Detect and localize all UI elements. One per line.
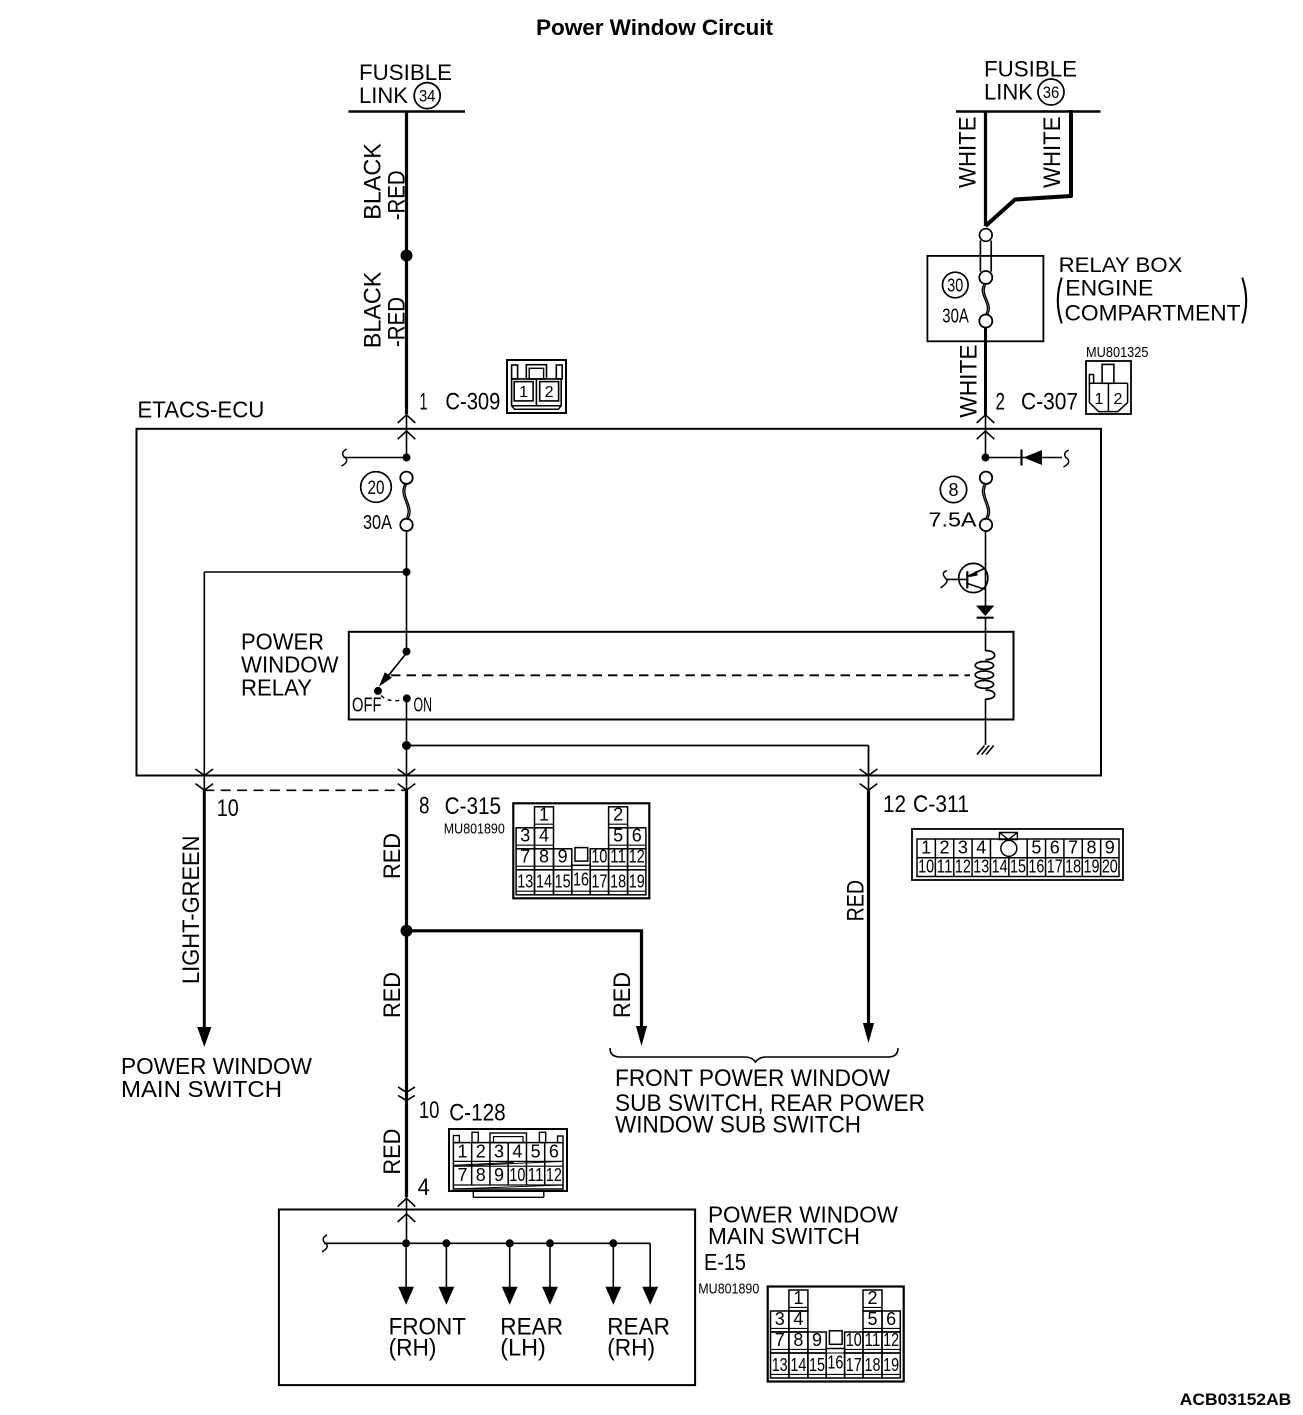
svg-text:2: 2 [613, 805, 623, 825]
svg-text:12: 12 [629, 847, 645, 867]
svg-text:OFF: OFF [352, 695, 382, 717]
svg-text:6: 6 [632, 826, 642, 846]
svg-text:11: 11 [865, 1330, 881, 1350]
svg-text:12: 12 [546, 1165, 562, 1185]
svg-text:COMPARTMENT: COMPARTMENT [1065, 301, 1241, 326]
svg-text:34: 34 [419, 87, 436, 106]
svg-text:C-128: C-128 [449, 1100, 506, 1127]
svg-text:1: 1 [458, 1141, 468, 1161]
svg-text:E-15: E-15 [704, 1249, 746, 1275]
svg-text:18: 18 [1065, 856, 1081, 876]
svg-text:10: 10 [918, 856, 934, 876]
svg-text:12: 12 [883, 1330, 899, 1350]
svg-text:30: 30 [947, 275, 963, 295]
svg-text:RED: RED [609, 972, 636, 1018]
svg-text:5: 5 [867, 1309, 877, 1329]
svg-text:20: 20 [1102, 856, 1118, 876]
svg-text:1: 1 [539, 805, 549, 825]
svg-text:11: 11 [610, 847, 626, 867]
svg-text:10: 10 [419, 1097, 440, 1124]
svg-text:10: 10 [217, 795, 239, 822]
svg-text:-RED: -RED [384, 297, 411, 347]
svg-text:2: 2 [867, 1288, 877, 1308]
svg-text:9: 9 [812, 1330, 822, 1350]
svg-text:LIGHT-GREEN: LIGHT-GREEN [178, 836, 205, 985]
svg-text:9: 9 [494, 1165, 504, 1185]
svg-text:11: 11 [937, 856, 953, 876]
svg-text:18: 18 [865, 1355, 881, 1375]
svg-text:5: 5 [1031, 837, 1041, 857]
svg-text:C-309: C-309 [445, 389, 500, 416]
svg-text:-RED: -RED [384, 170, 411, 220]
svg-text:(LH): (LH) [500, 1335, 546, 1362]
svg-text:FUSIBLE: FUSIBLE [984, 56, 1077, 81]
svg-text:4: 4 [512, 1141, 522, 1161]
svg-text:3: 3 [958, 837, 968, 857]
svg-text:10: 10 [509, 1165, 525, 1185]
svg-text:2: 2 [996, 389, 1006, 416]
svg-text:11: 11 [528, 1165, 544, 1185]
svg-text:(RH): (RH) [607, 1335, 655, 1362]
svg-text:2: 2 [1114, 391, 1123, 408]
svg-text:LINK: LINK [359, 83, 408, 108]
svg-text:16: 16 [573, 869, 589, 889]
svg-text:RELAY: RELAY [241, 674, 312, 700]
svg-text:8: 8 [539, 847, 549, 867]
svg-text:Power Window Circuit: Power Window Circuit [536, 15, 773, 40]
svg-text:ENGINE: ENGINE [1065, 276, 1153, 301]
svg-text:14: 14 [992, 856, 1008, 876]
svg-text:9: 9 [1105, 837, 1115, 857]
svg-text:13: 13 [973, 856, 989, 876]
svg-text:7: 7 [775, 1330, 785, 1350]
svg-text:15: 15 [1010, 856, 1026, 876]
svg-text:4: 4 [793, 1309, 803, 1329]
svg-text:MU801890: MU801890 [444, 822, 505, 838]
svg-text:18: 18 [610, 872, 626, 892]
svg-text:WHITE: WHITE [1039, 117, 1066, 189]
svg-text:16: 16 [1028, 856, 1044, 876]
svg-text:10: 10 [591, 847, 607, 867]
svg-text:2: 2 [476, 1141, 486, 1161]
svg-text:MAIN SWITCH: MAIN SWITCH [708, 1223, 860, 1249]
svg-text:6: 6 [1050, 837, 1060, 857]
svg-text:WHITE: WHITE [955, 344, 982, 417]
svg-text:7: 7 [458, 1165, 468, 1185]
svg-text:FUSIBLE: FUSIBLE [359, 60, 452, 85]
svg-text:WINDOW SUB SWITCH: WINDOW SUB SWITCH [615, 1112, 861, 1139]
svg-text:5: 5 [613, 826, 623, 846]
svg-text:BLACK: BLACK [360, 272, 387, 349]
svg-text:1: 1 [519, 384, 528, 401]
svg-text:3: 3 [494, 1141, 504, 1161]
svg-text:12: 12 [883, 791, 906, 818]
svg-text:ETACS-ECU: ETACS-ECU [137, 397, 264, 423]
svg-text:8: 8 [476, 1165, 486, 1185]
svg-text:6: 6 [549, 1141, 559, 1161]
svg-text:1: 1 [1095, 391, 1104, 408]
svg-text:4: 4 [976, 837, 986, 857]
svg-text:RED: RED [842, 880, 869, 921]
svg-text:30A: 30A [942, 305, 969, 328]
svg-text:4: 4 [418, 1174, 430, 1201]
svg-text:WHITE: WHITE [955, 117, 982, 189]
svg-text:2: 2 [545, 384, 554, 401]
svg-text:FRONT POWER WINDOW: FRONT POWER WINDOW [615, 1065, 890, 1092]
svg-text:17: 17 [1047, 856, 1063, 876]
svg-text:15: 15 [555, 872, 571, 892]
svg-text:(RH): (RH) [389, 1335, 437, 1362]
svg-text:MU801325: MU801325 [1086, 345, 1149, 361]
svg-text:5: 5 [531, 1141, 541, 1161]
svg-text:13: 13 [772, 1355, 788, 1375]
svg-text:7.5A: 7.5A [929, 509, 977, 532]
svg-text:7: 7 [1068, 837, 1078, 857]
svg-text:9: 9 [558, 847, 568, 867]
svg-text:17: 17 [591, 872, 607, 892]
svg-text:MAIN SWITCH: MAIN SWITCH [121, 1076, 282, 1102]
svg-text:1: 1 [793, 1288, 803, 1308]
svg-text:14: 14 [790, 1355, 806, 1375]
svg-text:C-311: C-311 [913, 791, 969, 818]
svg-text:19: 19 [883, 1355, 899, 1375]
svg-text:8: 8 [419, 793, 430, 820]
svg-text:RED: RED [379, 833, 406, 879]
svg-text:1: 1 [420, 389, 428, 416]
svg-text:19: 19 [629, 872, 645, 892]
svg-text:13: 13 [517, 872, 533, 892]
svg-text:10: 10 [846, 1330, 862, 1350]
svg-text:4: 4 [539, 826, 549, 846]
svg-text:8: 8 [793, 1330, 803, 1350]
svg-text:30A: 30A [363, 511, 392, 534]
svg-text:RED: RED [379, 972, 406, 1018]
svg-text:RELAY BOX: RELAY BOX [1059, 253, 1183, 277]
svg-text:C-315: C-315 [445, 793, 502, 820]
svg-text:RED: RED [379, 1129, 406, 1175]
svg-text:12: 12 [955, 856, 971, 876]
svg-text:8: 8 [1086, 837, 1096, 857]
svg-text:LINK: LINK [984, 80, 1033, 105]
svg-text:ON: ON [414, 695, 433, 717]
svg-text:15: 15 [809, 1355, 825, 1375]
svg-text:MU801890: MU801890 [698, 1282, 759, 1298]
svg-text:8: 8 [948, 480, 958, 500]
svg-text:6: 6 [886, 1309, 896, 1329]
svg-text:BLACK: BLACK [360, 143, 387, 220]
svg-text:C-307: C-307 [1021, 389, 1078, 416]
svg-text:3: 3 [520, 826, 530, 846]
svg-text:2: 2 [940, 837, 950, 857]
svg-text:ACB03152AB: ACB03152AB [1180, 1390, 1292, 1409]
svg-text:20: 20 [368, 477, 385, 499]
svg-text:14: 14 [536, 872, 552, 892]
svg-text:1: 1 [921, 837, 931, 857]
svg-text:7: 7 [520, 847, 530, 867]
svg-text:3: 3 [775, 1309, 785, 1329]
svg-text:19: 19 [1083, 856, 1099, 876]
svg-text:36: 36 [1043, 83, 1060, 102]
svg-text:17: 17 [846, 1355, 862, 1375]
svg-text:16: 16 [827, 1353, 843, 1373]
